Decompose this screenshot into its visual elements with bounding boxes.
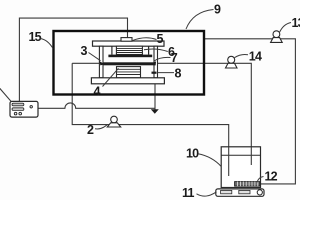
wire: line from press bottom plate down with arrow [154,84,156,110]
wire: gas pipe from chamber left down to valve 2 line and into container left tube [72,63,229,176]
svg-text:4: 4 [94,85,101,99]
leader 6 [144,49,168,52]
valve 13 [271,31,283,43]
leader 12 [257,177,263,183]
leader 4 [103,68,119,86]
arrowhead 3 [100,61,106,65]
sorbent block hatch ticks [238,182,258,187]
svg-text:12: 12 [265,169,278,183]
lower stack lamination lines [117,69,141,74]
controller knob [30,106,32,108]
valve 2 [107,116,120,127]
upper stack lamination lines [116,48,142,52]
upper heater stack 5 [116,46,142,54]
upper bracket right side [148,46,150,54]
container right tube [250,147,252,165]
lower heater stack 4 [117,67,141,78]
press top plate [93,41,165,46]
sample bar 7 [104,62,156,65]
leader 2 [95,125,107,129]
upper bracket left side [111,46,113,54]
sensor mark 8 [152,72,157,74]
upper platen bar 6 [108,55,152,58]
press left column [99,46,103,78]
stirrer base 11 [216,189,264,196]
controller box 1 [10,101,38,117]
container rim line [221,154,260,156]
leader 10 [198,154,221,167]
base slot right [239,190,250,193]
controller button right [19,112,22,115]
controller button left [14,112,17,115]
svg-text:7: 7 [171,51,178,65]
chamber box 15 [54,31,205,95]
leader 13 [280,23,291,33]
leader 5 [132,38,157,41]
leader for cut-off label 1 [0,84,11,101]
wire: power line from controller top to press ram nub [19,18,127,101]
svg-text:2: 2 [87,123,94,137]
leader 8 [158,72,175,74]
svg-text:9: 9 [214,3,221,17]
leader 15 [41,39,54,49]
svg-text:13: 13 [292,16,301,30]
arrowhead 7 [150,61,157,65]
wire: pipe under sample to valve 14 and down into container right tube [72,63,251,165]
press ram nub 5 [121,38,132,42]
container 10 [221,147,260,188]
leader 14 [235,54,248,57]
svg-text:10: 10 [186,147,199,161]
svg-text:11: 11 [182,186,194,200]
svg-text:3: 3 [81,44,88,58]
base knob [257,190,262,195]
svg-text:8: 8 [175,67,182,81]
controller vent slot 2 [12,108,24,111]
controller vent slot 1 [12,103,24,106]
press bottom plate [91,78,164,84]
valve 14 [226,56,238,68]
svg-text:14: 14 [249,50,262,64]
base slot left [221,190,232,193]
leader 3 with arrow [89,53,101,61]
wire: line 13 from chamber right to right side and down to sorbent block [204,39,295,184]
container left tube (redrawn inside) [228,147,230,176]
press right column [154,46,158,78]
wire: controller output with hop over vertical pipe [39,103,156,108]
leader 11 [197,192,217,196]
leader 7 with arrow [154,57,171,61]
leader 9 [186,10,214,30]
svg-text:15: 15 [29,30,42,44]
sorbent block 12 [235,182,260,187]
arrowhead: down arrow below chamber [151,109,159,114]
svg-text:5: 5 [157,32,164,46]
